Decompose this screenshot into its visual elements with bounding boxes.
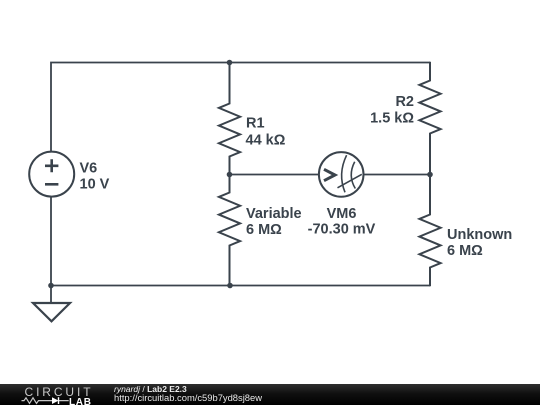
junction bottom middle (Variable / bottom rail)	[227, 283, 233, 289]
svg-text:V6: V6	[80, 161, 98, 177]
svg-text:6 MΩ: 6 MΩ	[246, 222, 282, 238]
svg-text:-70.30 mV: -70.30 mV	[308, 222, 376, 238]
junction middle left (R1 / Variable / voltmeter)	[227, 172, 233, 178]
svg-text:VM6: VM6	[327, 206, 357, 222]
voltage source V6	[29, 152, 74, 197]
junction top (R1 / top rail)	[227, 60, 233, 66]
CircuitLab logo	[0, 384, 110, 406]
ground	[33, 286, 70, 322]
svg-text:1.5 kΩ: 1.5 kΩ	[370, 111, 414, 127]
svg-text:R1: R1	[246, 115, 265, 131]
credit text	[113, 383, 115, 385]
junction middle right (R2 / Unknown / voltmeter)	[427, 172, 433, 178]
resistor R1	[219, 62, 240, 176]
svg-text:Unknown: Unknown	[447, 227, 512, 243]
wire middle rail left (node to voltmeter)	[230, 174, 320, 176]
wire left vertical and top rail	[51, 63, 430, 152]
wire bottom rail	[51, 285, 430, 287]
resistor R2	[419, 62, 440, 176]
resistor Variable	[219, 174, 240, 286]
footer bar	[0, 384, 540, 405]
svg-text:R2: R2	[395, 94, 414, 110]
wire middle rail right (voltmeter to node)	[363, 174, 430, 176]
svg-text:10 V: 10 V	[80, 177, 110, 193]
voltmeter VM6	[319, 152, 364, 197]
junction bottom left (V6 / ground)	[48, 283, 54, 289]
svg-text:6 MΩ: 6 MΩ	[447, 243, 483, 259]
svg-text:Variable: Variable	[246, 206, 302, 222]
resistor Unknown	[419, 174, 440, 286]
wire V6 bottom lead	[50, 196, 52, 285]
svg-text:44 kΩ: 44 kΩ	[246, 132, 286, 148]
